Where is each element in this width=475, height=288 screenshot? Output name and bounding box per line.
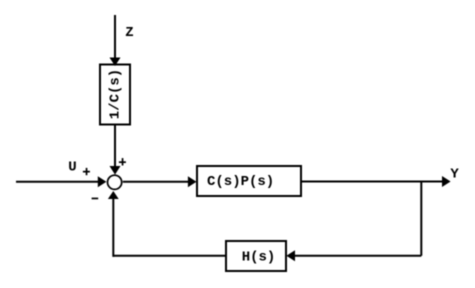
label minus bottom [92,198,99,200]
wire H(s) to left corner [113,255,226,257]
arrowhead into junction top [110,166,121,175]
label plus left [83,171,90,173]
wire U input [16,181,98,183]
svg-text:H(s): H(s) [242,249,276,265]
wire C(s)P(s) to output Y [301,181,443,183]
svg-text:Z: Z [125,25,133,41]
svg-text:1/C(s): 1/C(s) [108,69,124,119]
svg-text:C(s)P(s): C(s)P(s) [207,174,274,190]
arrowhead into H(s) block [286,250,295,261]
summing junction circle [108,175,122,189]
label plus top [119,161,126,163]
arrowhead into 1/C(s) block [110,58,121,67]
arrowhead output Y [442,176,451,187]
wire Z input vertical [114,15,116,58]
arrowhead into junction bottom [108,191,119,199]
svg-text:U: U [68,159,76,175]
arrowhead into C(s)P(s) block [188,176,197,187]
wire feedback up to junction [112,199,114,257]
wire 1/C(s) to summing junction [114,124,116,167]
wire bottom feedback horizontal [295,255,421,257]
block 1/C(s) [100,65,130,125]
arrowhead into junction left [98,176,107,187]
block H(s) [226,241,286,271]
wire junction to C(s)P(s) [123,181,188,183]
block C(s)P(s) [197,166,301,196]
svg-text:Y: Y [450,166,459,182]
wire branch down from output [420,182,422,256]
